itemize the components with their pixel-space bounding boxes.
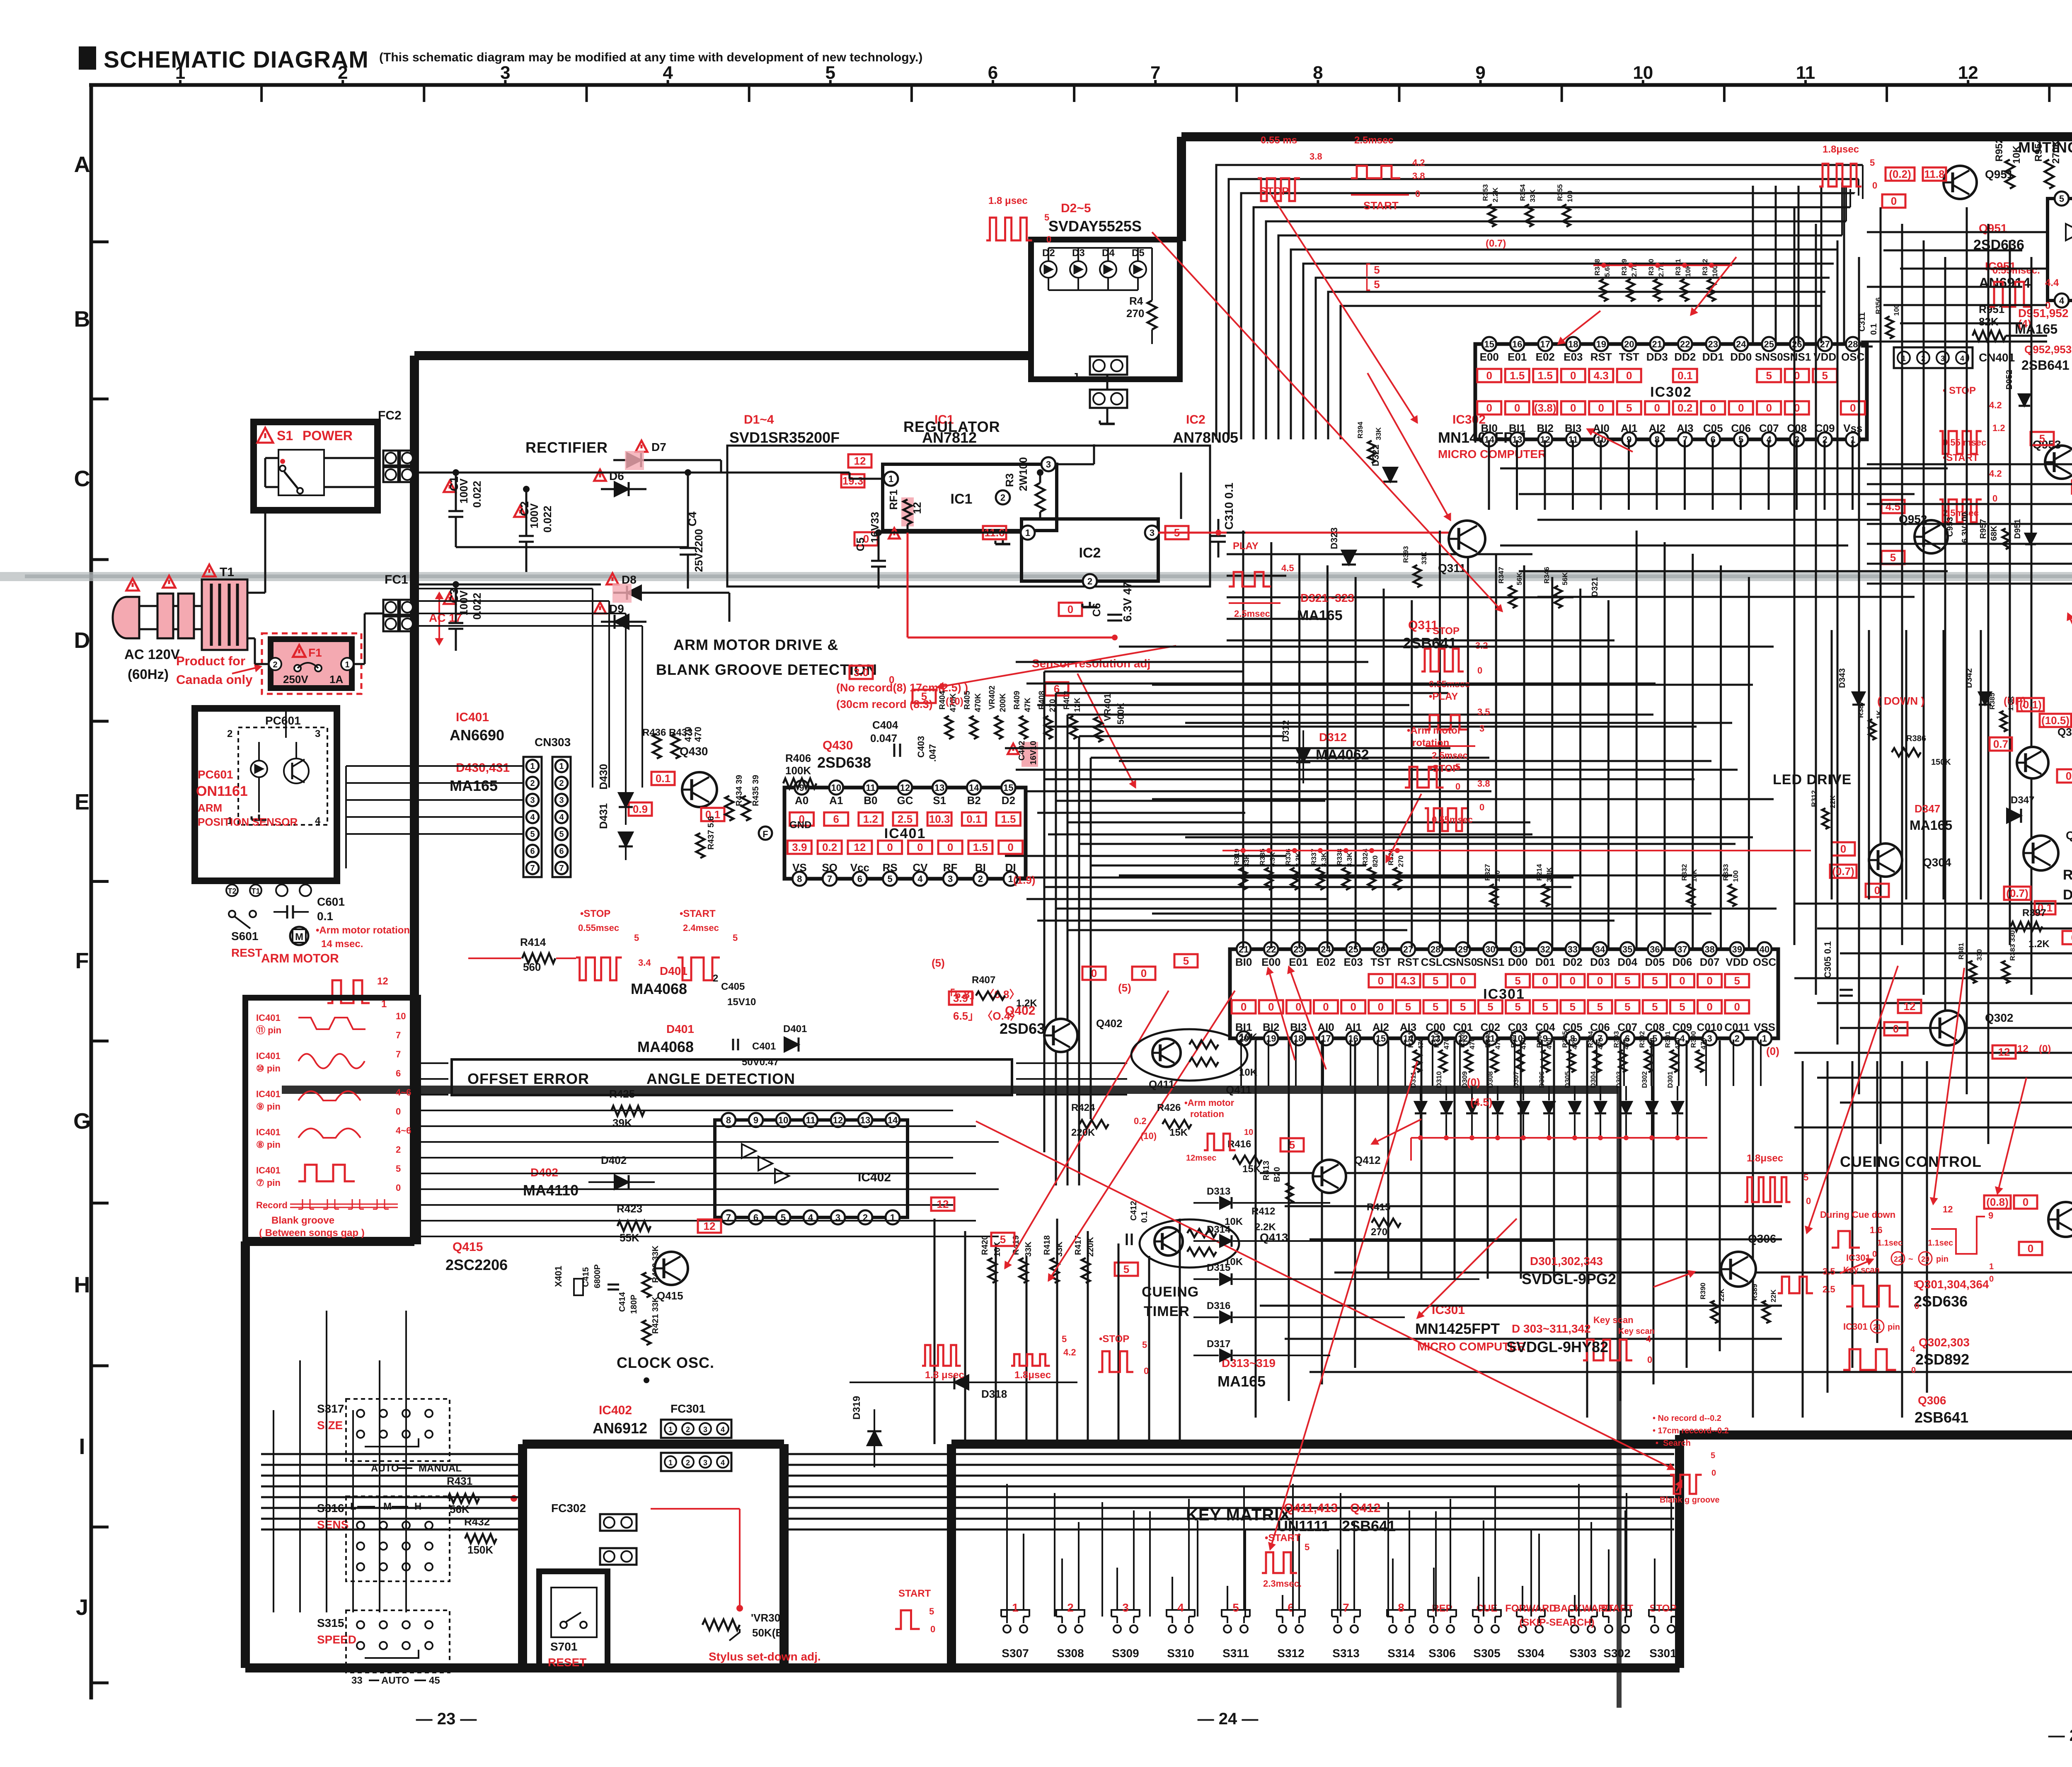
svg-text:0: 0 (1647, 1355, 1652, 1365)
svg-text:GC: GC (897, 794, 913, 807)
svg-text:4: 4 (1960, 354, 1964, 363)
svg-text:A0: A0 (795, 794, 808, 807)
svg-text:17: 17 (1540, 339, 1550, 349)
svg-text:D323: D323 (1329, 527, 1339, 549)
svg-text:0: 0 (1915, 1302, 1919, 1311)
svg-text:50K(B): 50K(B) (752, 1626, 787, 1639)
svg-text:C403: C403 (916, 736, 926, 758)
svg-text:470: 470 (1417, 1038, 1425, 1050)
svg-text:R4: R4 (1129, 295, 1143, 307)
svg-text:ON1161: ON1161 (196, 783, 248, 799)
svg-text:5: 5 (1405, 1001, 1411, 1013)
svg-text:• STOP: • STOP (1426, 625, 1460, 637)
svg-text:(30cm record (8.3): (30cm record (8.3) (836, 698, 933, 710)
svg-text:MICRO COMPUTER: MICRO COMPUTER (1438, 448, 1546, 461)
svg-text:(60Hz): (60Hz) (128, 667, 169, 682)
svg-text:(0.2): (0.2) (1889, 168, 1911, 180)
svg-text:SPEED: SPEED (317, 1633, 356, 1646)
svg-text:REP: REP (1432, 1603, 1452, 1614)
svg-text:D312: D312 (1319, 731, 1347, 744)
svg-text:S601: S601 (231, 930, 258, 943)
svg-text:0.022: 0.022 (471, 593, 483, 620)
switch S304 (1519, 1625, 1526, 1633)
svg-text:30: 30 (1485, 944, 1495, 955)
diode D302 (1646, 1102, 1658, 1113)
svg-text:R383 330: R383 330 (2009, 930, 2016, 961)
svg-text:D319: D319 (851, 1396, 862, 1420)
power switch S1 box (254, 422, 378, 510)
svg-text:AC 120V: AC 120V (124, 647, 180, 662)
svg-text:3: 3 (530, 796, 535, 805)
PC601 dashed box (238, 727, 327, 825)
svg-text:D430,431: D430,431 (456, 761, 510, 775)
svg-text:R352: R352 (1701, 259, 1709, 276)
svg-text:1.8μsec: 1.8μsec (1014, 1369, 1051, 1381)
svg-text:5: 5 (1460, 1001, 1466, 1013)
svg-text:0: 0 (1840, 843, 1846, 855)
svg-text:DD0: DD0 (1730, 351, 1752, 363)
svg-text:R312: R312 (1810, 790, 1818, 807)
mid verticals under IC402 (934, 1219, 936, 1444)
svg-text:S301: S301 (1649, 1647, 1676, 1660)
svg-text:IC301: IC301 (1846, 1253, 1871, 1263)
svg-text:560: 560 (523, 961, 541, 973)
R312 resistor (1822, 808, 1829, 829)
svg-text:D951,952: D951,952 (2018, 307, 2068, 320)
svg-text:10: 10 (1633, 63, 1653, 83)
svg-text:SVD1SR35200F: SVD1SR35200F (729, 429, 840, 446)
svg-text:2: 2 (1000, 492, 1005, 503)
svg-text:12: 12 (854, 455, 866, 467)
svg-text:C07: C07 (1617, 1021, 1637, 1033)
svg-text:1: 1 (1008, 874, 1013, 884)
svg-text:R333: R333 (1722, 864, 1730, 881)
svg-text:470: 470 (1468, 1038, 1476, 1050)
svg-text:CUEING CONTROL: CUEING CONTROL (1840, 1153, 1982, 1170)
IC2 box (1021, 519, 1158, 581)
svg-text:7: 7 (1150, 63, 1160, 83)
svg-text:•START: •START (680, 908, 716, 919)
svg-text:2SD892: 2SD892 (1915, 1351, 1969, 1368)
svg-text:4.2: 4.2 (1412, 158, 1425, 168)
svg-text:0: 0 (1542, 974, 1548, 987)
svg-text:5: 5 (1766, 369, 1772, 382)
D321 D322 D323 diodes (1383, 468, 1397, 482)
svg-text:IC401: IC401 (256, 1165, 281, 1176)
switch S311 (1224, 1625, 1231, 1633)
svg-text:34: 34 (1595, 944, 1605, 955)
IC402 bar (715, 1120, 908, 1217)
svg-text:200K: 200K (999, 693, 1007, 712)
red value 0 (1132, 967, 1155, 980)
svg-text:B2: B2 (967, 794, 981, 807)
svg-text:14: 14 (969, 783, 979, 793)
R347 R346 resistors (1509, 586, 1516, 608)
svg-text:BI2: BI2 (1263, 1021, 1279, 1033)
svg-text:0: 0 (396, 1183, 401, 1193)
svg-text:S302: S302 (1603, 1647, 1630, 1660)
svg-text:IC401: IC401 (256, 1127, 281, 1137)
svg-text:AN6690: AN6690 (450, 727, 504, 744)
svg-text:Q413: Q413 (1260, 1231, 1288, 1244)
svg-text:12: 12 (2017, 1043, 2028, 1054)
svg-text:4.4: 4.4 (2045, 277, 2059, 288)
svg-text:R418: R418 (1043, 1235, 1052, 1255)
svg-text:— 24 —: — 24 — (1198, 1710, 1259, 1728)
svg-text:25: 25 (1764, 339, 1774, 349)
svg-text:100K: 100K (785, 764, 811, 777)
svg-text:2.2K: 2.2K (1255, 1222, 1276, 1233)
svg-text:3.3K: 3.3K (1268, 852, 1276, 867)
svg-text:0.2: 0.2 (1677, 402, 1692, 414)
svg-text:2SD636: 2SD636 (1914, 1293, 1968, 1310)
svg-text:25: 25 (1348, 944, 1358, 955)
svg-text:24: 24 (1321, 944, 1331, 955)
svg-text:150K: 150K (467, 1544, 493, 1556)
svg-text:0: 0 (1144, 1366, 1149, 1376)
svg-text:33K: 33K (1420, 551, 1428, 565)
svg-text:BI0: BI0 (1235, 956, 1252, 968)
svg-text:STOP: STOP (1260, 185, 1289, 197)
svg-text:18: 18 (1568, 339, 1578, 349)
svg-text:Key scan: Key scan (1618, 1327, 1655, 1336)
svg-text:1: 1 (345, 660, 349, 669)
svg-text:R414: R414 (520, 936, 546, 948)
svg-text:47K: 47K (1024, 698, 1032, 712)
svg-text:C6: C6 (1090, 603, 1103, 617)
svg-text:BI1: BI1 (1509, 422, 1525, 434)
svg-text:START: START (1601, 1603, 1634, 1614)
R394 R393 resistors (1368, 441, 1375, 463)
svg-text:R347: R347 (1497, 567, 1505, 584)
svg-text:0: 0 (1486, 369, 1492, 382)
svg-text:(10): (10) (946, 696, 963, 707)
svg-text:1.5: 1.5 (973, 841, 988, 853)
svg-text:9: 9 (1475, 63, 1485, 83)
svg-text:D302: D302 (1641, 1071, 1648, 1088)
svg-text:50V0.47: 50V0.47 (742, 1057, 779, 1068)
svg-text:9: 9 (753, 1115, 758, 1125)
svg-text:9: 9 (1988, 1210, 1993, 1221)
svg-text:Stylus set-down adj.: Stylus set-down adj. (709, 1650, 821, 1663)
svg-text:DD3: DD3 (1646, 351, 1668, 363)
svg-text:0: 0 (1570, 402, 1576, 414)
svg-text:DD1: DD1 (1702, 351, 1724, 363)
verticals IC301 down to key matrix area (1255, 1040, 1257, 1418)
svg-text:R426: R426 (1157, 1102, 1181, 1113)
svg-text:29: 29 (1921, 1255, 1929, 1263)
Q951 transistor (1944, 166, 1977, 199)
svg-text:TIMER: TIMER (1144, 1304, 1190, 1319)
switch S310 (1169, 1625, 1176, 1633)
svg-text:E03: E03 (1344, 956, 1363, 968)
svg-text:2.5: 2.5 (1823, 1284, 1835, 1294)
svg-text:0: 0 (2023, 1196, 2028, 1208)
svg-text:0: 0 (1570, 369, 1576, 382)
svg-text:10: 10 (778, 1115, 788, 1125)
svg-text:AUTO: AUTO (381, 1675, 409, 1686)
PC601 block box (195, 708, 337, 881)
svg-text:UN1111: UN1111 (1277, 1517, 1329, 1534)
svg-text:3: 3 (703, 1459, 707, 1467)
svg-text:R381: R381 (1957, 943, 1965, 960)
red arrow long 1 (1152, 232, 1502, 611)
svg-text:C5: C5 (854, 538, 867, 551)
red warning C402 (1021, 742, 1038, 767)
svg-text:3.3K: 3.3K (1346, 852, 1353, 867)
svg-text:35: 35 (1622, 944, 1632, 955)
svg-text:C07: C07 (1759, 422, 1779, 434)
svg-text:IC401: IC401 (456, 710, 489, 724)
svg-text:68K: 68K (1990, 526, 1999, 541)
svg-text:C412: C412 (1129, 1201, 1138, 1221)
svg-text:2: 2 (978, 874, 983, 884)
RF1 resistor (901, 497, 914, 526)
svg-text:5: 5 (1062, 1334, 1067, 1344)
svg-text:0.1: 0.1 (317, 910, 333, 923)
svg-text:IC1: IC1 (951, 491, 973, 507)
svg-text:1: 1 (888, 474, 893, 484)
svg-text:0: 0 (1872, 1250, 1877, 1259)
svg-text:6: 6 (559, 847, 564, 856)
svg-text:AI2: AI2 (1372, 1021, 1389, 1033)
svg-text:5: 5 (929, 1606, 934, 1617)
svg-text:CN303: CN303 (535, 736, 571, 749)
svg-text:D7: D7 (651, 441, 666, 453)
svg-text:Q304: Q304 (1923, 856, 1951, 869)
svg-text:5: 5 (1123, 1263, 1129, 1275)
svg-text:R307: R307 (1510, 1031, 1518, 1048)
svg-text:1.5: 1.5 (1538, 369, 1553, 382)
svg-text:5: 5 (1515, 974, 1520, 987)
svg-text:POSITION SENSOR: POSITION SENSOR (198, 816, 298, 828)
left long bus horizontals (416, 588, 593, 589)
svg-text:D305: D305 (1564, 1071, 1571, 1088)
svg-text:0: 0 (1067, 603, 1073, 616)
svg-text:SNS1: SNS1 (1783, 351, 1811, 363)
svg-text:0: 0 (917, 841, 923, 853)
svg-text:AI2: AI2 (1649, 422, 1665, 434)
svg-text:0: 0 (1323, 1001, 1329, 1013)
svg-text:28: 28 (1848, 339, 1858, 349)
svg-text:100V: 100V (457, 478, 470, 504)
svg-text:470: 470 (1699, 1038, 1707, 1050)
svg-text:2SB641: 2SB641 (1342, 1517, 1396, 1534)
S1 switch symbol (278, 450, 324, 495)
svg-text:E02: E02 (1536, 351, 1555, 363)
svg-text:D06: D06 (1673, 956, 1692, 968)
svg-text:39: 39 (1732, 944, 1742, 955)
svg-text:4: 4 (663, 63, 673, 83)
svg-text:C310 0.1: C310 0.1 (1222, 482, 1235, 530)
svg-text:20: 20 (1624, 339, 1634, 349)
svg-text:3.4: 3.4 (638, 957, 651, 968)
SVDAY5525S box (1031, 240, 1180, 379)
svg-text:H: H (414, 1501, 421, 1512)
svg-text:330: 330 (1975, 949, 1983, 961)
diode D309 (1466, 1102, 1478, 1113)
svg-text:DD2: DD2 (1674, 351, 1696, 363)
svg-text:0.9: 0.9 (633, 803, 648, 815)
svg-text:D05: D05 (1645, 956, 1665, 968)
svg-text:3: 3 (703, 1425, 707, 1434)
switch S309 (1113, 1625, 1121, 1633)
offset error angle detection box (452, 1059, 1012, 1095)
connector block border FC301 (518, 1444, 527, 1668)
svg-text:S1: S1 (277, 428, 293, 443)
red value 5 (1174, 954, 1198, 967)
vertical bus IC302 to IC301 (1488, 440, 1490, 510)
svg-text:6: 6 (857, 874, 862, 884)
svg-text:40: 40 (1760, 944, 1769, 955)
svg-text:(This schematic diagram may be: (This schematic diagram may be modified … (379, 51, 922, 64)
svg-text:0: 0 (1597, 974, 1603, 987)
svg-text:0: 0 (1378, 1001, 1384, 1013)
svg-text:5: 5 (1652, 974, 1658, 987)
svg-text:220K: 220K (1071, 1127, 1095, 1138)
svg-text:2: 2 (1067, 1601, 1074, 1614)
svg-text:56K: 56K (1515, 572, 1523, 585)
svg-text:Q411: Q411 (1226, 1083, 1251, 1096)
svg-text:0: 0 (1989, 1275, 1994, 1284)
svg-text:R346: R346 (1543, 567, 1551, 584)
svg-text:3: 3 (1707, 1033, 1712, 1044)
svg-text:Record: Record (256, 1200, 288, 1210)
svg-text:R437 5.6: R437 5.6 (707, 816, 716, 850)
switch S308 (1058, 1625, 1066, 1633)
red value 12 (698, 1219, 721, 1233)
svg-text:pin: pin (1936, 1255, 1949, 1264)
VR302 50KB (702, 1619, 740, 1630)
switch S313 (1334, 1625, 1341, 1633)
svg-text:R416: R416 (1227, 1139, 1251, 1150)
svg-text:1.8μsec: 1.8μsec (1747, 1153, 1783, 1164)
R434 R435 R437 resistors (725, 796, 733, 821)
svg-text:Q415: Q415 (657, 1289, 683, 1302)
svg-text:RECTIFIER: RECTIFIER (525, 439, 608, 456)
svg-text:D03: D03 (1590, 956, 1610, 968)
svg-text:2: 2 (713, 973, 718, 984)
AC plug symbol (113, 597, 139, 638)
svg-text:5: 5 (1734, 974, 1740, 987)
svg-text:R301: R301 (1664, 1031, 1672, 1048)
svg-text:0: 0 (1850, 402, 1856, 414)
svg-text:FC301: FC301 (670, 1402, 705, 1415)
svg-text:3.8: 3.8 (1310, 151, 1322, 162)
svg-text:VDD: VDD (1813, 351, 1836, 363)
svg-text:PC601: PC601 (265, 714, 301, 727)
svg-text:R304: R304 (1587, 1031, 1595, 1048)
svg-text:0: 0 (1891, 195, 1897, 207)
svg-text:VSS: VSS (1754, 1021, 1775, 1033)
svg-text:12: 12 (911, 502, 923, 514)
svg-text:150K: 150K (1931, 758, 1951, 767)
selector drop verticals left (273, 1410, 274, 1454)
svg-text:5: 5 (634, 933, 639, 943)
svg-text:5: 5 (1679, 1001, 1685, 1013)
svg-text:MA4110: MA4110 (523, 1182, 579, 1199)
svg-text:5: 5 (1142, 1340, 1147, 1350)
svg-text:14 msec.: 14 msec. (321, 938, 363, 950)
svg-text:33K: 33K (1243, 854, 1251, 867)
svg-text:R303: R303 (1612, 1031, 1620, 1048)
svg-text:S317: S317 (317, 1402, 344, 1415)
svg-text:3: 3 (1046, 459, 1051, 470)
svg-text:R355: R355 (1556, 184, 1564, 201)
svg-text:D313~319: D313~319 (1222, 1357, 1276, 1369)
svg-text:16: 16 (1512, 339, 1522, 349)
svg-text:⎡ 5: ⎡ 5 (1365, 263, 1380, 277)
svg-text:D347: D347 (2011, 795, 2034, 806)
svg-text:B0: B0 (864, 794, 877, 807)
svg-text:15: 15 (1003, 783, 1013, 793)
svg-text:12: 12 (1904, 1000, 1916, 1013)
diode D308 (1492, 1102, 1503, 1113)
svg-text:21: 21 (1652, 339, 1662, 349)
svg-text:R957: R957 (1979, 519, 1988, 539)
svg-text:MA165: MA165 (1218, 1373, 1266, 1390)
diode D311 (1415, 1102, 1426, 1113)
svg-text:0: 0 (1007, 841, 1013, 853)
svg-text:E01: E01 (1508, 351, 1527, 363)
svg-text:VR401: VR401 (1102, 693, 1113, 721)
svg-text:D401: D401 (783, 1023, 807, 1035)
svg-text:CUEING: CUEING (1142, 1284, 1199, 1300)
wires rectifier area (414, 472, 850, 474)
svg-text:12: 12 (1943, 1204, 1953, 1214)
svg-text:3: 3 (1479, 723, 1484, 734)
svg-text:R351: R351 (1674, 259, 1682, 276)
svg-text:39K: 39K (612, 1117, 632, 1129)
svg-text:D303: D303 (1615, 1071, 1623, 1088)
svg-text:3.8: 3.8 (1477, 778, 1490, 789)
svg-text:0: 0 (1460, 974, 1466, 987)
svg-text:S306: S306 (1428, 1647, 1455, 1660)
R381 R383 resistors (1969, 961, 1976, 983)
svg-text:D307: D307 (1512, 1071, 1520, 1088)
svg-text:IC2: IC2 (1079, 545, 1101, 561)
svg-text:SO: SO (822, 861, 838, 874)
svg-text:R407: R407 (972, 974, 995, 986)
wires right column (1794, 207, 1796, 945)
svg-text:(0.8): (0.8) (1986, 1196, 2008, 1208)
svg-text:Q411: Q411 (1149, 1078, 1174, 1091)
svg-text:0: 0 (1477, 665, 1482, 676)
svg-text:•STOP: •STOP (1429, 763, 1459, 774)
svg-text:CSLC: CSLC (1421, 956, 1450, 968)
svg-text:5: 5 (1183, 955, 1189, 967)
svg-text:D2: D2 (1002, 794, 1015, 807)
svg-text:100V: 100V (457, 590, 470, 616)
svg-text:BI3: BI3 (1565, 422, 1581, 434)
diode D304 (1595, 1102, 1606, 1113)
svg-text:0.022: 0.022 (541, 506, 554, 533)
svg-text:0: 0 (1091, 967, 1097, 979)
D313-319 wires (1256, 1202, 1330, 1204)
svg-text:⑩ pin: ⑩ pin (256, 1063, 281, 1074)
svg-text:33K: 33K (1024, 1241, 1033, 1257)
svg-text:2: 2 (396, 1144, 401, 1155)
svg-text:55K: 55K (620, 1231, 639, 1244)
svg-text:820: 820 (1371, 856, 1379, 867)
svg-text:S1: S1 (933, 794, 946, 807)
svg-text:⑧ pin: ⑧ pin (256, 1139, 281, 1150)
svg-text:R389: R389 (1751, 1284, 1759, 1301)
svg-text:2: 2 (686, 1459, 690, 1467)
svg-text:5: 5 (1914, 1280, 1918, 1289)
svg-text:32: 32 (1540, 944, 1550, 955)
svg-text:8: 8 (1398, 1601, 1404, 1614)
